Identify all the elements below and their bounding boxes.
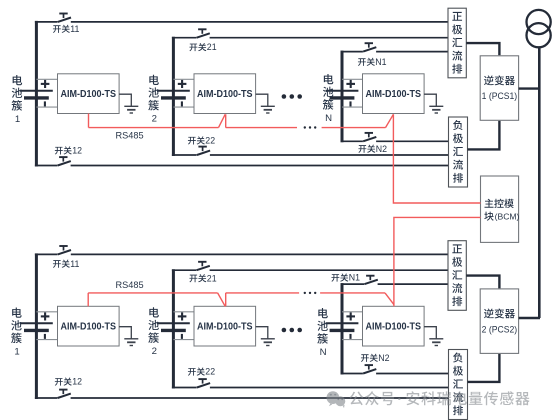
svg-text:RS485: RS485 [116, 131, 144, 141]
svg-text:N2: N2 [376, 144, 387, 154]
RS485 link module 2 (system 1) [219, 114, 226, 127]
switch 开关12 (system 2) [58, 390, 71, 398]
bus 负极汇流排 negative busbar (system 2) [449, 350, 468, 420]
RS485 riser to BCM (system 1) [393, 114, 480, 203]
svg-text:AIM-D100-TS: AIM-D100-TS [197, 89, 253, 100]
svg-text:1: 1 [15, 114, 20, 125]
wire positive cluster N to bus (system 1) [341, 51, 450, 53]
battery 电池簇1 (system 2) [20, 312, 53, 339]
svg-text:11: 11 [70, 259, 79, 269]
module U2 AIM-D100-TS (system 2) [194, 306, 256, 346]
RS485 drop module 1 (system 2) [87, 293, 89, 306]
RS485 drop module 1 (system 1) [88, 114, 90, 128]
control module 主控模块 BCM [481, 176, 520, 242]
ground module N (system 2) [424, 327, 443, 346]
svg-text:N: N [325, 113, 332, 124]
wire PCS1 to transformer [519, 87, 540, 89]
wire transformer vertical [538, 48, 541, 319]
svg-text:2 (PCS2): 2 (PCS2) [482, 324, 518, 334]
battery 电池簇1 (system 1) [20, 80, 53, 107]
label 开关12 (system 2) [55, 377, 82, 387]
label 开关11 (system 2) [53, 259, 80, 269]
RS485 bus segment A (system 1) [89, 127, 219, 129]
svg-text:AIM-D100-TS: AIM-D100-TS [197, 322, 253, 333]
module U2 AIM-D100-TS (system 1) [194, 74, 256, 114]
svg-text:AIM-D100-TS: AIM-D100-TS [366, 89, 422, 100]
module UN AIM-D100-TS (system 1) [363, 74, 425, 114]
wire battery string N vertical (system 2) [341, 283, 344, 374]
RS485 bus segment B (system 1) [226, 127, 297, 129]
svg-text:N1: N1 [375, 57, 386, 67]
wire 正极汇流排1 to PCS1 [466, 43, 499, 55]
wire positive cluster 2 to bus (system 1) [172, 37, 449, 39]
label 开关N1 (system 2) [331, 273, 360, 283]
switch 开关N2 (system 1) [363, 133, 376, 141]
label RS485 (system 2) [116, 280, 144, 290]
RS485 bus segment A (system 2) [88, 292, 217, 294]
RS485 riser from BCM (system 2) [394, 217, 481, 306]
svg-text:2: 2 [152, 346, 157, 357]
svg-text:(BCM): (BCM) [495, 211, 520, 221]
switch 开关21 (system 1) [197, 29, 210, 37]
label 电池簇N (system 1) [323, 74, 334, 124]
svg-text:AIM-D100-TS: AIM-D100-TS [61, 322, 117, 333]
switch 开关N1 (system 1) [363, 43, 376, 51]
svg-text:AIM-D100-TS: AIM-D100-TS [61, 89, 117, 100]
ground module 2 (system 2) [256, 327, 275, 346]
wire 正极汇流排2 to PCS2 [466, 276, 499, 289]
ellipsis dots clusters (system 1) [282, 94, 302, 99]
RS485 bus segment B (system 2) [226, 292, 299, 294]
wire battery string 2 vertical (system 2) [172, 269, 175, 388]
svg-text:·: · [397, 390, 402, 406]
RS485 link module N (system 2) [385, 293, 394, 305]
wire negative cluster N to bus (system 1) [341, 140, 450, 142]
wire battery string N vertical (system 1) [341, 51, 344, 143]
bus 负极汇流排 negative busbar (system 1) [449, 117, 468, 187]
wire negative cluster 1 to bus (system 2) [35, 397, 450, 399]
label 开关21 (system 1) [189, 42, 216, 52]
svg-text:21: 21 [207, 273, 217, 283]
ground module 1 (system 1) [119, 94, 138, 113]
label 电池簇1 (system 2) [11, 308, 22, 358]
switch 开关11 (system 2) [58, 246, 71, 254]
svg-text:12: 12 [72, 146, 82, 156]
wire sense - module N (system 1) [342, 106, 363, 108]
wire positive cluster N to bus (system 2) [341, 283, 450, 285]
module U1 AIM-D100-TS (system 2) [58, 306, 120, 346]
svg-text:1: 1 [14, 347, 19, 358]
switch 开关N1 (system 2) [365, 276, 378, 284]
wire sense - module N (system 2) [342, 339, 363, 341]
wire sense - module 2 (system 1) [173, 106, 194, 108]
svg-text:N1: N1 [349, 273, 360, 283]
module U1 AIM-D100-TS (system 1) [58, 74, 120, 114]
RS485 link module 2 (system 2) [218, 293, 226, 306]
svg-text:21: 21 [207, 42, 217, 52]
label 电池簇N (system 2) [317, 308, 328, 358]
watermark 公众号·安科瑞电量传感器 [327, 390, 530, 408]
inverter 逆变器2 PCS2 [480, 289, 518, 354]
wire sense - module 1 (system 1) [36, 106, 57, 108]
label 开关N1 (system 1) [358, 57, 387, 67]
inverter 逆变器1 PCS1 [480, 56, 518, 121]
ellipsis dots clusters (system 2) [282, 328, 302, 333]
switch 开关12 (system 1) [58, 157, 71, 165]
switch 开关11 (system 1) [58, 14, 71, 22]
transformer T1 [527, 10, 551, 47]
label 电池簇1 (system 1) [12, 75, 23, 125]
wire positive cluster 1 to bus (system 2) [35, 253, 449, 255]
wire sense + module N (system 2) [342, 311, 363, 313]
label 电池簇2 (system 1) [148, 75, 159, 125]
battery 电池簇N (system 2) [326, 312, 359, 339]
wire sense + module 1 (system 2) [36, 311, 57, 313]
svg-text:RS485: RS485 [116, 280, 144, 290]
wire 负极汇流排1 to PCS1 [468, 121, 500, 150]
wire battery string 1 vertical (system 2) [35, 253, 38, 399]
wire sense + module 1 (system 1) [36, 78, 57, 80]
bus 正极汇流排 positive busbar (system 1) [448, 8, 466, 78]
wire sense - module 2 (system 2) [173, 339, 194, 341]
wire sense - module 1 (system 2) [36, 339, 57, 341]
RS485 ellipsis dots (system 1) [304, 126, 317, 128]
battery 电池簇2 (system 2) [157, 312, 190, 339]
wire negative cluster 2 to bus (system 2) [172, 387, 450, 389]
svg-text:22: 22 [205, 367, 215, 377]
ground module N (system 1) [424, 94, 443, 113]
wire sense + module N (system 1) [342, 78, 363, 80]
label 开关21 (system 2) [189, 273, 216, 283]
wire battery string 2 vertical (system 1) [172, 37, 175, 156]
switch 开关22 (system 1) [197, 147, 210, 155]
svg-text:2: 2 [152, 114, 157, 125]
bus 正极汇流排 positive busbar (system 2) [448, 241, 466, 311]
label 开关N2 (system 1) [358, 144, 387, 154]
label 电池簇2 (system 2) [148, 307, 159, 357]
wire negative cluster 2 to bus (system 1) [172, 154, 450, 156]
svg-text:1 (PCS1): 1 (PCS1) [482, 91, 518, 101]
switch 开关21 (system 2) [197, 262, 210, 270]
label 开关12 (system 1) [55, 146, 82, 156]
wire sense + module 2 (system 2) [173, 311, 194, 313]
wire 负极汇流排2 to PCS2 [468, 354, 500, 382]
RS485 ellipsis dots (system 2) [304, 292, 317, 294]
switch 开关22 (system 2) [197, 379, 210, 387]
label 开关22 (system 2) [188, 367, 215, 377]
switch 开关N2 (system 2) [363, 365, 376, 373]
wire negative cluster N to bus (system 2) [341, 373, 450, 375]
svg-text:AIM-D100-TS: AIM-D100-TS [366, 322, 422, 333]
RS485 bus segment C (system 2) [320, 292, 385, 294]
svg-text:22: 22 [205, 136, 215, 146]
ground module 2 (system 1) [256, 94, 275, 113]
label RS485 (system 1) [116, 131, 144, 141]
wire sense + module 2 (system 1) [173, 78, 194, 80]
label 开关N2 (system 2) [361, 353, 390, 363]
battery 电池簇2 (system 1) [157, 80, 190, 107]
RS485 link module N (system 1) [386, 114, 394, 127]
module UN AIM-D100-TS (system 2) [363, 306, 425, 346]
svg-text:12: 12 [72, 377, 82, 387]
svg-text:11: 11 [70, 24, 79, 34]
RS485 bus segment C (system 1) [322, 127, 386, 129]
wire negative cluster 1 to bus (system 1) [35, 165, 450, 167]
battery 电池簇N (system 1) [326, 80, 359, 107]
wire battery string 1 vertical (system 1) [35, 21, 38, 167]
ground module 1 (system 2) [119, 327, 138, 346]
wire PCS2 to transformer [519, 317, 540, 319]
label 开关11 (system 1) [53, 24, 80, 34]
label 开关22 (system 1) [188, 136, 215, 146]
svg-text:N: N [320, 347, 327, 358]
svg-text:N2: N2 [378, 353, 389, 363]
wire positive cluster 2 to bus (system 2) [172, 269, 449, 271]
wire positive cluster 1 to bus (system 1) [35, 21, 449, 23]
